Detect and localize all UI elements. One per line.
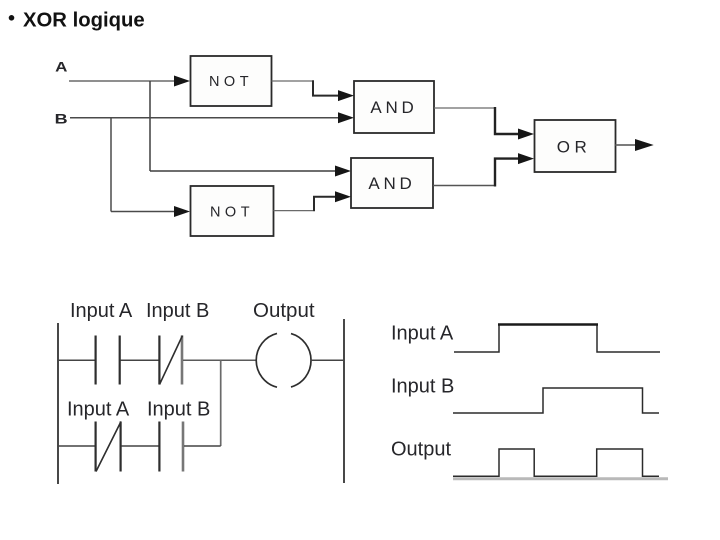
arrow XOR output (635, 139, 654, 151)
arrow into OR U5 input 2 (518, 153, 534, 164)
wire A to NOT U1 (69, 80, 176, 82)
node A label (55, 58, 67, 74)
contact Input A rung 2 (NC) (96, 422, 121, 472)
svg-text:OR: OR (557, 138, 592, 157)
ladder label Input B rung 1 (146, 300, 209, 322)
gate AND U4 (351, 158, 433, 208)
ladder left rail (57, 323, 59, 484)
svg-text:Input B: Input B (391, 376, 454, 398)
wire NOT U2 output to AND U4 (274, 197, 338, 212)
wire NOT U1 output to AND U3 (272, 80, 341, 95)
arrow into NOT U1 (174, 76, 190, 87)
arrow into AND U3 input 2 (338, 112, 354, 123)
gate NOT U1 (191, 56, 272, 106)
wire B to AND U3 (70, 117, 340, 119)
svg-text:Input A: Input A (70, 300, 133, 322)
timing label Input B (391, 376, 454, 398)
title bullet (9, 15, 15, 21)
wire AND U4 output to OR U5 (433, 159, 520, 187)
svg-text:NOT: NOT (209, 74, 253, 90)
ladder label Output coil (253, 299, 315, 322)
wire OR U5 output (616, 144, 638, 146)
arrow into AND U4 input 1 (335, 166, 351, 177)
gate NOT U2 (191, 186, 274, 236)
contact Input B rung 2 (NO) (159, 422, 183, 472)
rung 2 wire segment left (58, 445, 95, 447)
svg-text:AND: AND (368, 174, 415, 193)
rung 1 wire segment left (58, 359, 95, 361)
rung 2 wire segment right (184, 445, 221, 447)
wire AND U3 output to OR U5 (434, 107, 520, 134)
svg-text:Input B: Input B (146, 300, 209, 322)
arrow into AND U4 input 2 (335, 191, 351, 202)
rung 1 wire coil to right rail (311, 359, 344, 361)
contact Input B rung 1 (NC) (159, 336, 182, 385)
node B label (55, 111, 68, 127)
branch wire rung1 to rung2 (220, 360, 222, 446)
svg-text:XOR logique: XOR logique (23, 10, 145, 32)
svg-text:Input B: Input B (147, 398, 210, 420)
arrow into AND U3 input 1 (338, 90, 354, 101)
waveform Output gray underline (453, 477, 668, 480)
contact Input A rung 1 (NO) (96, 336, 120, 385)
gate AND U3 (354, 81, 434, 133)
timing label Input A (391, 323, 454, 345)
waveform Input B (453, 388, 659, 413)
svg-text:Input A: Input A (391, 323, 454, 345)
wire A branch horizontal to AND U4 (150, 170, 337, 172)
ladder right rail (343, 319, 345, 483)
wire B branch horizontal to NOT U2 (111, 211, 176, 213)
svg-text:NOT: NOT (210, 205, 254, 221)
rung 2 wire segment mid (122, 445, 159, 447)
wire A branch vertical to AND U4 (149, 81, 151, 171)
coil Output (256, 333, 311, 387)
svg-text:B: B (55, 111, 68, 127)
svg-text:AND: AND (370, 98, 417, 117)
svg-text:Input A: Input A (67, 398, 130, 420)
ladder label Input A rung 1 (70, 300, 133, 322)
gate OR U5 (535, 120, 616, 172)
wire B branch vertical to NOT U2 (110, 118, 112, 212)
ladder label Input B rung 2 (147, 398, 210, 420)
rung 1 wire segment mid (121, 359, 159, 361)
title text: XOR logique (23, 10, 145, 32)
timing label Output (391, 439, 451, 461)
svg-text:A: A (55, 58, 67, 74)
arrow into NOT U2 (174, 206, 190, 217)
arrow into OR U5 input 1 (518, 129, 534, 140)
svg-text:Output: Output (253, 299, 315, 322)
rung 1 wire segment to coil (183, 359, 256, 361)
ladder label Input A rung 2 (67, 398, 130, 420)
svg-text:Output: Output (391, 439, 451, 461)
waveform Output (453, 449, 659, 476)
waveform Input A (454, 325, 660, 353)
